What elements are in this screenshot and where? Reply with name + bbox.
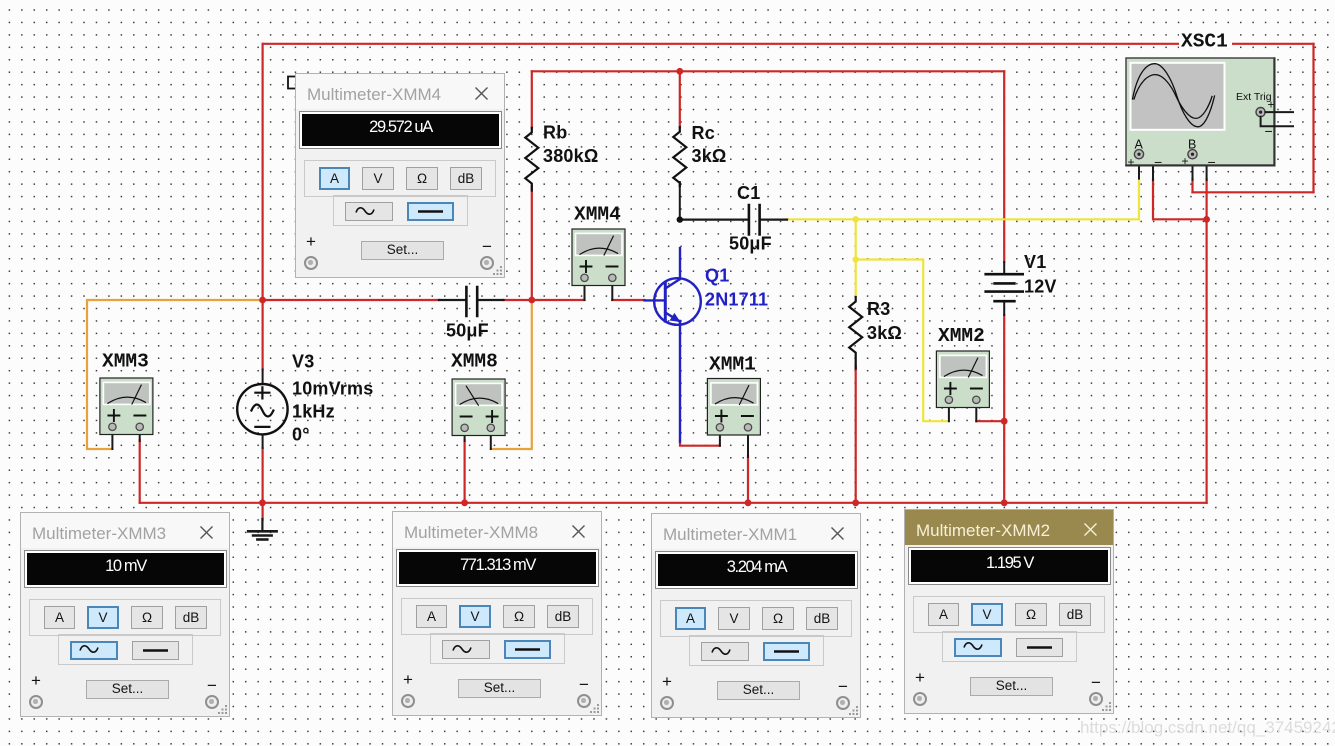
wire: yellow C1 output to scope A [787,218,1139,220]
value 380kOhm [543,146,598,166]
node: junction ground at XMM8 [461,499,468,506]
svg-text:Rb: Rb [543,123,567,143]
svg-text:50μF: 50μF [446,321,489,341]
value 10mVrms [292,379,373,399]
wire: ground rail horizontal [140,502,1207,504]
wire: XMM4 minus to Q1 base [612,299,644,301]
pin + of A [1128,155,1135,169]
node: junction VCC rail at Rc [676,68,683,75]
svg-text:+: + [1182,154,1189,168]
wire: V1 black leads [1003,262,1005,315]
svg-text:A: A [1135,138,1144,152]
svg-text:V3: V3 [292,352,314,372]
wire: orange loop XMM3 plus to input junction [87,300,263,449]
label XMM4 [574,204,621,226]
multimeter icon XMM8 (mirrored) [452,379,505,436]
label V3 [292,352,314,372]
capacitor input 50uF plates [466,287,477,316]
wire: input cap leads [439,299,504,301]
pin + of B [1182,154,1189,168]
dialog window Multimeter-XMM8 [392,511,602,716]
multimeter icon XMM4 [572,229,625,286]
value 3kOhm (Rc) [692,146,727,166]
wire: input cap to XMM4 junction [504,299,585,301]
svg-text:−: − [1208,154,1216,170]
svg-text:XSC1: XSC1 [1181,31,1228,53]
label Ext Trig [1236,91,1272,103]
svg-text:XMM3: XMM3 [102,351,149,373]
node: yellow junction R3/XMM2 branch [853,256,859,262]
dialog window Multimeter-XMM1 [651,513,861,718]
svg-text:3kΩ: 3kΩ [867,323,902,343]
node: yellow junction at output net [853,216,859,222]
wire: XMM2 terminal stubs [949,403,976,421]
wire: Rb top lead wire [531,71,533,128]
value 12V [1024,277,1057,297]
pin - of Ext Trig [1265,123,1273,139]
dialog window Multimeter-XMM4 [295,73,505,278]
node: junction ground at R3 [852,499,859,506]
svg-text:−: − [1265,123,1273,139]
label V1 [1024,252,1046,272]
node: junction scope A minus / B minus [1203,216,1210,223]
svg-text:2N1711: 2N1711 [705,290,768,310]
svg-text:Q1: Q1 [705,266,729,286]
transistor Q1 2N1711 [645,248,701,442]
label R3 [867,299,890,319]
value 1kHz [292,402,335,422]
wire: V3 black leads [262,370,264,449]
svg-text:R3: R3 [867,299,890,319]
svg-text:12V: 12V [1024,277,1057,297]
label Rb [543,123,567,143]
value 2N1711 [705,290,768,310]
svg-text:XMM1: XMM1 [709,354,756,376]
svg-text:Rc: Rc [692,123,715,143]
svg-text:XMM4: XMM4 [574,204,621,226]
svg-text:0°: 0° [292,425,310,445]
dialog window Multimeter-XMM2 (active) [904,509,1114,714]
label XMM3 [102,351,149,373]
svg-text:50μF: 50μF [729,234,772,254]
label XSC1 (with background) [1179,31,1232,53]
wire: XMM4 terminal stubs [585,281,613,300]
node: junction base-input [259,297,266,304]
wire: yellow branch down to R3 top [855,219,857,297]
svg-text:XMM2: XMM2 [938,325,985,347]
wire: top horizontal rail [263,43,1314,45]
label XMM1 [709,354,756,376]
wire: Rc bottom to C1 junction black [679,182,681,220]
wire: XMM2 minus to V1 ground wire [976,420,1004,422]
multimeter icon XMM2 [936,351,989,408]
wire: XMM3 terminal stubs [112,430,139,449]
multimeter icon XMM1 [707,379,760,436]
wire: scope B plus red stub [1191,179,1193,192]
wire: C1 left lead [680,219,748,221]
svg-text:V1: V1 [1024,252,1046,272]
resistor Rb [525,128,538,191]
wire: junction down to V3 top [262,300,264,370]
label XMM2 [938,325,985,347]
node: junction ground at XMM1 [745,499,752,506]
watermark [1080,718,1335,738]
pin label A [1135,138,1144,152]
pin - of A [1154,154,1162,170]
node: junction ground at V3 [259,499,266,506]
wire: scope A minus red elbow to B minus line [1153,179,1207,219]
wire: C1 right lead [761,219,788,221]
node: junction XMM2 minus at V1 [1001,418,1008,425]
value 50uF (C1) [729,234,772,254]
multimeter icon XMM3 [100,378,153,435]
svg-text:C1: C1 [737,183,760,203]
wire: scope A terminal stubs [1139,154,1153,180]
wire: XMM1 terminal stubs [720,430,748,457]
pin label B [1188,138,1196,152]
node: junction ground at V1 [1001,499,1008,506]
svg-text:3kΩ: 3kΩ [692,146,727,166]
AC source V3 [237,384,287,434]
wire: XMM8 terminal stubs [465,431,491,449]
wire: yellow up to scope A plus stub [1138,178,1140,219]
svg-text:+: + [1128,155,1135,169]
label XMM8 [451,351,498,373]
wire: horizontal into scope channel B plus [1193,191,1314,193]
wire: yellow branch to XMM2 plus [856,260,949,422]
dialog window Multimeter-XMM3 [20,512,230,717]
svg-text:Ext Trig: Ext Trig [1236,91,1272,103]
wire: scope B minus down to ground rail [1205,179,1207,503]
battery V1 [986,274,1023,301]
wire: Rb bottom to base junction [531,186,533,300]
node: junction collector C1 (black) [677,216,683,222]
value 0deg [292,425,310,445]
resistor R3 [849,297,862,369]
oscilloscope XSC1 icon [1126,58,1293,166]
wire: left vertical from top rail down to base-input junction [262,44,264,300]
wire: R3 bottom down to ground rail [855,366,857,503]
wire: scope B terminal stubs [1193,154,1207,180]
pin + of Ext Trig [1268,98,1275,112]
ground [248,519,276,540]
label Rc [692,123,715,143]
wire: Q1 emitter to XMM1 plus [680,442,720,446]
wire: XMM3 minus down to ground rail [139,440,141,503]
resistor Rc [673,127,686,186]
pin - of B [1208,154,1216,170]
hidden component fragment behind XMM4 dialog [288,77,296,89]
svg-text:−: − [1154,154,1162,170]
wire: VCC rail drop to V1 plus [1003,71,1005,262]
svg-text:1kHz: 1kHz [292,402,335,422]
wire: XMM8 minus down to ground rail [464,440,466,503]
wire: V1 minus down to ground rail [1003,315,1005,503]
node: junction cap-out / XMM8 [528,297,535,304]
value 3kOhm (R3) [867,323,902,343]
wire: right vertical of top rail down to scope B+ feed [1312,44,1314,193]
capacitor C1 plates [749,205,760,235]
svg-text:XMM8: XMM8 [451,351,498,373]
wire: VCC rail from Rb top to V1 [532,70,1004,72]
value 50uF (input cap) [446,321,489,341]
label Q1 [705,266,729,286]
wire: XMM1 minus down to ground rail [747,456,749,503]
svg-text:10mVrms: 10mVrms [292,379,373,399]
wire: base junction to input cap [263,299,439,301]
wire: orange XMM8 plus up to cap-out junction [491,300,532,449]
svg-text:B: B [1188,138,1196,152]
svg-text:+: + [1268,98,1275,112]
wire: V3 bottom to ground rail [262,448,264,520]
wire: Rc top lead wire [679,71,681,127]
svg-text:380kΩ: 380kΩ [543,146,598,166]
label C1 [737,183,760,203]
